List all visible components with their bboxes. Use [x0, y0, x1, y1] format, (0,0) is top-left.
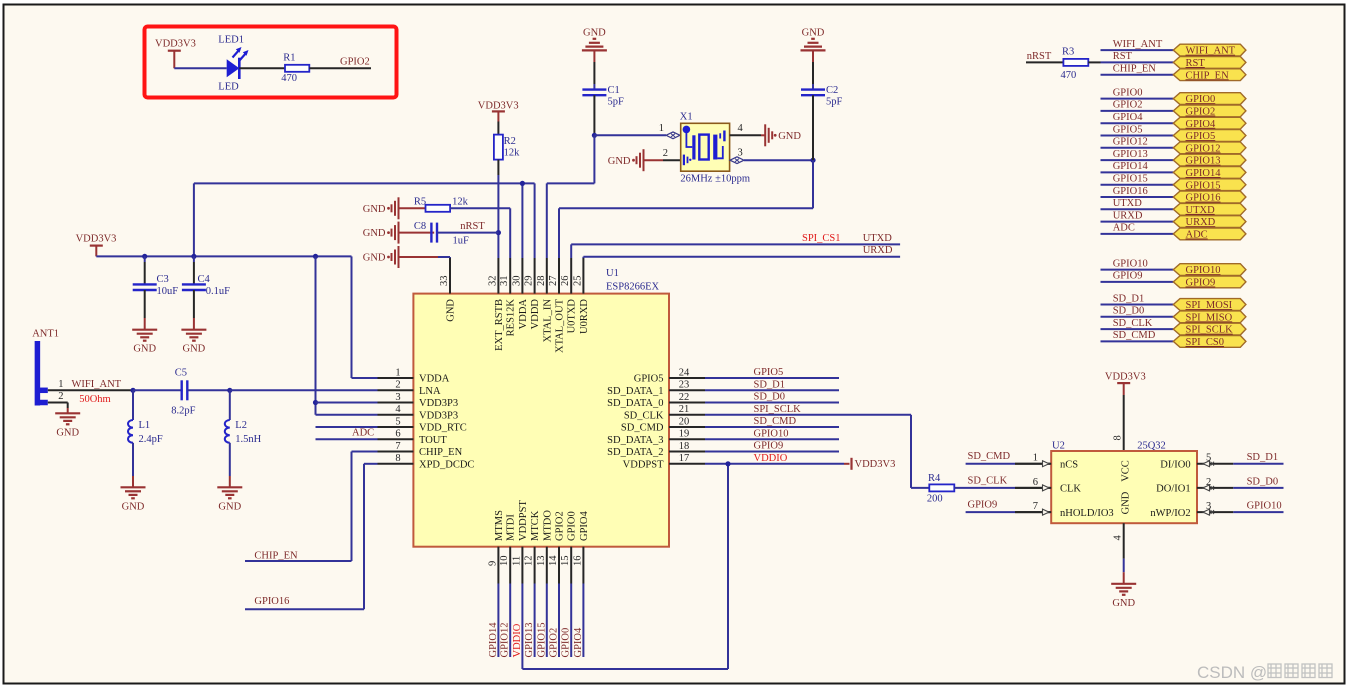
svg-text:SD_D0: SD_D0	[1247, 476, 1279, 487]
wire	[316, 256, 378, 414]
ground (R5)	[363, 197, 399, 219]
wire	[133, 389, 183, 391]
wire	[1026, 61, 1063, 63]
wire / net label SD_CLK	[1101, 318, 1174, 329]
svg-text:URXD: URXD	[1113, 210, 1143, 221]
svg-text:UTXD: UTXD	[1186, 205, 1216, 216]
wire	[593, 62, 595, 84]
svg-text:SPI_CS1: SPI_CS1	[802, 233, 841, 244]
svg-text:U1: U1	[606, 268, 619, 279]
port GPIO16	[1173, 191, 1246, 204]
svg-text:GPIO0: GPIO0	[567, 511, 578, 541]
wire / net label WIFI_ANT	[1101, 39, 1174, 50]
svg-text:LED: LED	[218, 81, 239, 92]
ground (X1 pin2)	[608, 149, 644, 171]
wire	[497, 160, 499, 258]
wire	[316, 402, 378, 404]
ground (U2)	[1111, 584, 1136, 609]
svg-text:15: 15	[560, 556, 571, 567]
net label CHIP_EN	[254, 551, 298, 562]
net label SPI_CS1	[802, 233, 841, 244]
svg-text:1: 1	[395, 367, 400, 378]
wire / net label CHIP_EN	[1101, 64, 1174, 75]
wire / net label SD_D1	[1101, 293, 1174, 304]
svg-text:SPI_SCLK: SPI_SCLK	[1186, 325, 1234, 336]
net label GPIO9	[754, 441, 784, 452]
wire	[48, 403, 68, 414]
svg-text:GPIO12: GPIO12	[1113, 137, 1148, 148]
svg-text:0.1uF: 0.1uF	[206, 286, 230, 297]
svg-text:24: 24	[679, 367, 690, 378]
svg-text:GPIO0: GPIO0	[1113, 87, 1143, 98]
wire	[559, 160, 813, 258]
svg-text:R3: R3	[1062, 47, 1074, 58]
svg-text:9: 9	[487, 561, 498, 566]
wire	[1088, 61, 1100, 63]
svg-text:GPIO14: GPIO14	[488, 622, 499, 658]
wire	[316, 438, 378, 440]
svg-text:GPIO4: GPIO4	[1186, 119, 1217, 130]
pin 3 (U1 VDD3P3)	[378, 392, 459, 409]
svg-text:GND: GND	[56, 427, 79, 438]
pin 6 (U1 TOUT)	[378, 429, 448, 446]
svg-text:SPI_SCLK: SPI_SCLK	[754, 404, 802, 415]
pin 30 (U1 VDDA)	[511, 258, 529, 329]
net label GPIO5	[754, 367, 784, 378]
ground (pin 33)	[363, 246, 399, 268]
svg-text:TOUT: TOUT	[419, 435, 447, 446]
svg-text:L1: L1	[139, 420, 151, 431]
svg-text:VDD3V3: VDD3V3	[1105, 372, 1146, 383]
power VDD3V3 (LED)	[155, 39, 196, 69]
svg-text:DO/IO1: DO/IO1	[1156, 484, 1190, 495]
svg-text:17: 17	[679, 453, 690, 464]
svg-text:6: 6	[1033, 477, 1038, 488]
svg-text:CHIP_EN: CHIP_EN	[1186, 70, 1230, 81]
pin 1 (U1 VDDA)	[378, 367, 450, 384]
svg-text:UTXD: UTXD	[863, 233, 893, 244]
ground (C3)	[132, 330, 157, 355]
wire	[187, 389, 230, 391]
svg-text:C2: C2	[826, 85, 838, 96]
svg-text:WIFI_ANT: WIFI_ANT	[1186, 46, 1236, 57]
svg-text:SD_CMD: SD_CMD	[754, 416, 797, 427]
pin 9 (U1 MTMS)	[487, 510, 505, 584]
svg-text:VDD3V3: VDD3V3	[76, 233, 117, 244]
wire / net label SD_CMD	[1101, 330, 1174, 341]
wire / net label GPIO16	[1101, 186, 1174, 197]
pin 21 (U1 SD_CLK)	[624, 404, 705, 421]
port URXD	[1173, 216, 1246, 229]
svg-text:C8: C8	[414, 221, 426, 232]
pin 11 (U1 VDDPST)	[511, 500, 529, 584]
svg-text:VDD3V3: VDD3V3	[855, 459, 896, 470]
wire / net label GPIO12	[1101, 137, 1174, 148]
svg-text:GPIO10: GPIO10	[1247, 501, 1282, 512]
pin 1 (ANT1)	[58, 379, 63, 390]
svg-text:XTAL_OUT: XTAL_OUT	[555, 298, 566, 353]
svg-text:50Ohm: 50Ohm	[79, 394, 111, 405]
svg-text:CSDN @: CSDN @	[1197, 663, 1267, 682]
net label SD_D0	[754, 392, 786, 403]
svg-text:R4: R4	[928, 473, 941, 484]
pin 6 (U2 CLK)	[1015, 477, 1081, 495]
pin 12 (U1 MTCK)	[524, 510, 542, 583]
port GPIO14	[1173, 167, 1246, 180]
svg-text:VDD3P3: VDD3P3	[419, 398, 458, 409]
port WIFI_ANT	[1173, 44, 1246, 57]
pin 3 (U2 nWP/IO2)	[1150, 501, 1233, 519]
svg-text:SD_CMD: SD_CMD	[1113, 330, 1156, 341]
wire / net label GPIO4	[573, 584, 584, 658]
svg-text:XTAL_IN: XTAL_IN	[542, 299, 553, 343]
svg-text:nRST: nRST	[1027, 51, 1052, 62]
svg-text:GPIO14: GPIO14	[1113, 161, 1149, 172]
wire	[593, 95, 595, 135]
ground (L2)	[217, 487, 242, 512]
svg-text:470: 470	[281, 73, 297, 84]
pin 19 (U1 SD_DATA_3)	[607, 429, 705, 446]
svg-text:GPIO13: GPIO13	[1186, 156, 1221, 167]
capacitor C4	[182, 256, 230, 297]
svg-text:LED1: LED1	[218, 35, 244, 46]
pin 8 (U2 VCC)	[1113, 435, 1124, 440]
svg-text:28: 28	[536, 276, 547, 287]
capacitor C3	[133, 256, 179, 297]
pin 1 (X1)	[659, 123, 680, 139]
svg-text:SPI_CS0: SPI_CS0	[1186, 337, 1225, 348]
wire	[644, 159, 681, 161]
power VDD3V3 (rail)	[76, 233, 117, 256]
wire / net label GPIO13	[1101, 149, 1174, 160]
resistor R3	[1061, 47, 1089, 82]
pin 8 (U1 XPD_DCDC)	[378, 453, 475, 470]
wire	[911, 487, 929, 489]
svg-text:200: 200	[927, 494, 943, 505]
wire	[730, 157, 813, 164]
svg-text:23: 23	[679, 380, 690, 391]
svg-text:VDDIO: VDDIO	[754, 453, 788, 464]
net label nRST	[1027, 51, 1052, 62]
svg-text:GND: GND	[1120, 491, 1131, 514]
junction	[496, 230, 501, 235]
svg-text:GND: GND	[363, 253, 386, 264]
wire / net label RST	[1101, 51, 1174, 62]
svg-text:R1: R1	[283, 52, 295, 63]
svg-text:VDDA: VDDA	[518, 299, 529, 330]
svg-text:C5: C5	[175, 368, 187, 379]
svg-text:nHOLD/IO3: nHOLD/IO3	[1060, 508, 1114, 519]
net label GPIO2	[340, 57, 370, 68]
svg-text:GPIO15: GPIO15	[1186, 180, 1221, 191]
ground (C1 top)	[582, 27, 607, 62]
junction	[592, 133, 597, 138]
svg-text:SD_DATA_1: SD_DATA_1	[607, 386, 663, 397]
svg-text:ANT1: ANT1	[32, 329, 59, 340]
svg-text:10uF: 10uF	[157, 286, 179, 297]
svg-text:DI/IO0: DI/IO0	[1160, 460, 1190, 471]
svg-text:UTXD: UTXD	[1113, 198, 1143, 209]
svg-text:7: 7	[1033, 501, 1038, 512]
wire	[229, 443, 231, 488]
port CHIP_EN	[1173, 69, 1246, 82]
svg-text:WIFI_ANT: WIFI_ANT	[72, 379, 122, 390]
svg-text:URXD: URXD	[1186, 217, 1216, 228]
wire	[547, 135, 595, 258]
svg-text:5pF: 5pF	[826, 97, 843, 108]
svg-text:SD_DATA_3: SD_DATA_3	[607, 435, 663, 446]
svg-text:GPIO10: GPIO10	[754, 429, 789, 440]
svg-text:25: 25	[572, 276, 583, 287]
pin 10 (U1 MTDI)	[499, 514, 517, 584]
pin 22 (U1 SD_DATA_0)	[607, 392, 705, 409]
wire	[399, 257, 451, 258]
svg-text:C3: C3	[157, 274, 169, 285]
port ADC	[1173, 228, 1246, 241]
wire / net label GPIO4	[1101, 112, 1174, 123]
svg-text:GPIO14: GPIO14	[1186, 168, 1222, 179]
pin 7 (U1 CHIP_EN)	[378, 441, 463, 458]
svg-text:27: 27	[548, 276, 559, 287]
wire	[812, 95, 814, 160]
wire / net label GPIO15	[536, 584, 547, 658]
svg-text:26: 26	[560, 276, 571, 287]
svg-text:R5: R5	[414, 196, 426, 207]
svg-text:VDD3P3: VDD3P3	[419, 410, 458, 421]
port GPIO15	[1173, 179, 1246, 192]
svg-text:2: 2	[58, 391, 63, 402]
svg-text:SD_D1: SD_D1	[1247, 452, 1279, 463]
wire	[705, 377, 839, 379]
wire	[450, 208, 510, 258]
pin 16 (U1 GPIO4)	[572, 510, 590, 583]
wire	[954, 487, 1051, 489]
svg-text:12k: 12k	[504, 147, 520, 158]
wire	[194, 183, 535, 258]
wire	[705, 389, 839, 391]
svg-text:20: 20	[679, 416, 690, 427]
wire	[48, 389, 133, 391]
wire / net label GPIO9	[1101, 271, 1174, 282]
svg-text:GPIO5: GPIO5	[634, 374, 664, 385]
svg-text:SD_DATA_2: SD_DATA_2	[607, 447, 663, 458]
svg-text:SD_DATA_0: SD_DATA_0	[607, 398, 663, 409]
svg-text:18: 18	[679, 441, 690, 452]
net label GPIO10	[754, 429, 789, 440]
svg-text:ADC: ADC	[1113, 223, 1135, 234]
svg-text:RST: RST	[1186, 58, 1206, 69]
junction	[313, 254, 318, 259]
junction	[191, 254, 196, 259]
net label SD_CMD	[754, 416, 797, 427]
pin 23 (U1 SD_DATA_1)	[607, 380, 705, 397]
pin 27 (U1 XTAL_OUT)	[548, 258, 566, 353]
svg-text:SD_CLK: SD_CLK	[624, 410, 664, 421]
svg-text:nWP/IO2: nWP/IO2	[1150, 508, 1190, 519]
svg-text:19: 19	[679, 429, 690, 440]
svg-text:33: 33	[439, 276, 450, 287]
IC U1 ESP8266EX	[413, 268, 669, 547]
svg-text:5: 5	[1206, 453, 1211, 464]
pin 15 (U1 GPIO0)	[560, 511, 578, 583]
svg-text:GPIO16: GPIO16	[1113, 186, 1148, 197]
svg-text:nCS: nCS	[1060, 460, 1078, 471]
port GPIO2	[1173, 105, 1246, 118]
svg-text:U0TXD: U0TXD	[567, 299, 578, 334]
power VDD3V3 (R2)	[478, 101, 519, 122]
net label GPIO16	[254, 596, 289, 607]
capacitor C2	[801, 84, 843, 108]
wire	[497, 122, 499, 135]
svg-text:GPIO4: GPIO4	[579, 510, 590, 541]
svg-text:GPIO12: GPIO12	[1186, 143, 1221, 154]
pin 18 (U1 SD_DATA_2)	[607, 441, 705, 458]
pin 32 (U1 EXT_RSTB)	[487, 258, 505, 351]
svg-text:5pF: 5pF	[608, 97, 625, 108]
wire / net label GPIO14	[1101, 161, 1174, 172]
svg-text:GPIO2: GPIO2	[555, 511, 566, 541]
pin 14 (U1 GPIO2)	[548, 511, 566, 583]
capacitor C1	[582, 84, 624, 108]
capacitor C5	[171, 368, 195, 417]
wire	[812, 62, 814, 84]
svg-text:GPIO16: GPIO16	[1186, 193, 1221, 204]
pin 29 (U1 VDDD)	[524, 258, 542, 329]
port GPIO4	[1173, 117, 1246, 130]
svg-text:MTDI: MTDI	[506, 514, 517, 541]
junction	[130, 388, 135, 393]
svg-text:GPIO2: GPIO2	[1186, 107, 1216, 118]
ground (C2 top)	[801, 27, 826, 62]
wire / net label SD_D0	[1101, 306, 1174, 317]
svg-text:URXD: URXD	[863, 245, 893, 256]
IC U2 25Q32	[1051, 440, 1197, 523]
port GPIO12	[1173, 142, 1246, 155]
svg-text:12: 12	[524, 556, 535, 567]
wire / net label GPIO12	[500, 584, 511, 658]
svg-text:RST: RST	[1113, 51, 1133, 62]
inductor L1	[128, 390, 163, 445]
port GPIO0	[1173, 93, 1246, 106]
port GPIO10	[1173, 264, 1246, 277]
svg-text:GPIO5: GPIO5	[1113, 124, 1143, 135]
wire	[239, 67, 285, 69]
svg-text:GND: GND	[218, 501, 241, 512]
svg-text:SD_CMD: SD_CMD	[621, 423, 664, 434]
net label SD_CMD	[968, 451, 1011, 462]
pin 24 (U1 GPIO5)	[634, 367, 705, 384]
pin 4 (U2 GND)	[1113, 523, 1124, 558]
svg-text:nRST: nRST	[460, 221, 485, 232]
svg-text:3: 3	[395, 392, 400, 403]
svg-text:2: 2	[663, 148, 668, 159]
port UTXD	[1173, 203, 1246, 216]
wire / net label URXD	[1101, 210, 1174, 221]
power VDD3V3 (U2)	[1105, 372, 1146, 395]
wire	[1123, 395, 1125, 451]
svg-text:GND: GND	[802, 27, 825, 38]
svg-text:X1: X1	[680, 111, 693, 122]
pin 25 (U1 U0RXD)	[572, 258, 590, 334]
svg-text:10: 10	[499, 556, 510, 567]
pin 28 (U1 XTAL_IN)	[536, 258, 554, 342]
svg-text:8: 8	[1113, 435, 1124, 440]
net label GPIO9	[968, 500, 998, 511]
svg-text:7: 7	[395, 441, 400, 452]
svg-text:29: 29	[524, 276, 535, 287]
wire	[583, 257, 900, 258]
net label ADC	[352, 427, 374, 438]
wire / net label UTXD	[1101, 198, 1174, 209]
wire / net label GPIO10	[1101, 258, 1174, 269]
svg-text:26MHz ±10ppm: 26MHz ±10ppm	[680, 174, 750, 185]
svg-text:GPIO15: GPIO15	[1113, 174, 1148, 185]
svg-text:8: 8	[395, 453, 400, 464]
pin 26 (U1 U0TXD)	[560, 258, 578, 333]
wire	[522, 464, 728, 669]
pin 7 (U2 nHOLD/IO3)	[1015, 501, 1114, 519]
svg-text:SPI_MOSI: SPI_MOSI	[1186, 300, 1233, 311]
svg-text:VDDIO: VDDIO	[512, 623, 523, 657]
ground (X1 pin4)	[765, 124, 801, 146]
wire	[730, 134, 766, 136]
pin 31 (U1 RES12K)	[499, 258, 517, 336]
net label nRST	[460, 221, 485, 232]
svg-text:U2: U2	[1052, 440, 1065, 451]
wire	[705, 426, 839, 428]
svg-text:VDDD: VDDD	[530, 299, 541, 330]
svg-text:32: 32	[487, 276, 498, 287]
wire / net label GPIO0	[1101, 87, 1174, 98]
svg-text:GPIO9: GPIO9	[1186, 278, 1216, 289]
wire	[705, 451, 839, 453]
wire / net label GPIO15	[1101, 174, 1174, 185]
svg-text:EXT_RSTB: EXT_RSTB	[494, 299, 505, 351]
junction	[725, 461, 730, 466]
svg-text:1: 1	[58, 379, 63, 390]
pin 13 (U1 MTDO)	[536, 510, 554, 584]
svg-text:1uF: 1uF	[453, 235, 470, 246]
svg-text:ADC: ADC	[1186, 230, 1208, 241]
svg-text:GPIO10: GPIO10	[1186, 265, 1221, 276]
wire / net label SD_D1	[1233, 452, 1283, 464]
svg-text:25Q32: 25Q32	[1137, 440, 1166, 451]
wire	[966, 511, 1052, 513]
port SPI_MOSI	[1173, 299, 1246, 312]
port GPIO9	[1173, 276, 1246, 289]
net label VDDIO	[754, 453, 788, 464]
svg-text:SD_D1: SD_D1	[1113, 293, 1145, 304]
net label UTXD	[863, 233, 893, 244]
wire / net label SD_D0	[1233, 476, 1283, 488]
wire	[245, 452, 378, 562]
watermark	[1197, 663, 1332, 682]
svg-text:31: 31	[499, 276, 510, 287]
wire	[705, 463, 850, 465]
svg-text:12k: 12k	[452, 196, 469, 207]
svg-text:SD_D1: SD_D1	[754, 380, 786, 391]
port RST	[1173, 57, 1246, 70]
net label WIFI_ANT	[72, 379, 122, 390]
svg-text:GPIO10: GPIO10	[1113, 258, 1148, 269]
svg-text:VDD_RTC: VDD_RTC	[419, 423, 467, 434]
junction	[142, 254, 147, 259]
svg-text:MTMS: MTMS	[494, 510, 505, 541]
svg-text:R2: R2	[504, 136, 516, 147]
svg-text:GPIO4: GPIO4	[1113, 112, 1144, 123]
wire	[437, 232, 498, 234]
svg-text:CLK: CLK	[1060, 484, 1081, 495]
